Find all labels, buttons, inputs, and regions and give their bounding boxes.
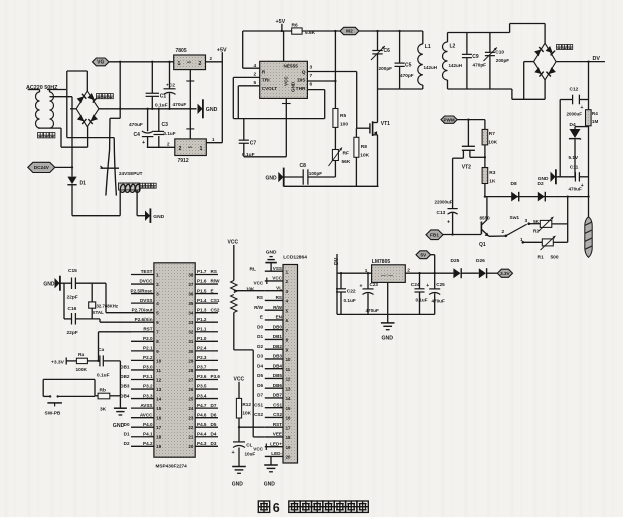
capacitor C9 470pF	[466, 33, 468, 55]
svg-text:P3.4: P3.4	[197, 393, 207, 398]
svg-text:P1.0: P1.0	[197, 336, 207, 341]
svg-text:1: 1	[178, 61, 181, 67]
svg-text:11: 11	[156, 368, 161, 373]
wire AC cross rail	[67, 137, 114, 139]
lcd pin 11 DB4	[265, 368, 283, 370]
svg-text:GND: GND	[113, 423, 125, 429]
svg-text:C15: C15	[68, 268, 77, 274]
svg-text:7: 7	[310, 73, 313, 79]
lcd pin 17 RST	[265, 426, 283, 428]
svg-text:14: 14	[286, 396, 291, 401]
wire R12 to lcd RST	[239, 426, 265, 428]
wire tank2 top rail	[448, 32, 510, 34]
svg-text:CS2: CS2	[211, 307, 220, 312]
svg-text:8550: 8550	[480, 215, 491, 220]
svg-text:7912: 7912	[178, 158, 189, 164]
regulator 7805	[174, 55, 206, 70]
ground GND near bus	[198, 104, 203, 114]
lcd pin 4 RS	[265, 299, 283, 301]
transformer T1 primary winding	[36, 92, 40, 128]
svg-text:27: 27	[188, 377, 193, 382]
bridge rectifier 1 label 整流桥	[97, 94, 102, 99]
ground GND LM7805	[381, 322, 395, 324]
svg-text:CS2: CS2	[273, 412, 282, 417]
pin 2 DVCC	[131, 283, 154, 285]
svg-text:P1.3: P1.3	[197, 307, 207, 312]
node 5V tag	[416, 251, 431, 259]
svg-text:MSP430F2274: MSP430F2274	[156, 464, 188, 469]
pin 34 P1.3 CS2	[195, 312, 218, 314]
relay contact arm 1	[106, 118, 110, 195]
pin 30 P2.4	[195, 350, 218, 352]
svg-text:DB3: DB3	[273, 354, 283, 359]
node DC24V tag	[28, 162, 55, 172]
svg-text:CS2: CS2	[254, 412, 263, 417]
wire main positive bus	[99, 108, 197, 110]
svg-text:7805: 7805	[176, 48, 187, 54]
node FB1 tag	[426, 230, 443, 240]
svg-text:+: +	[360, 283, 363, 289]
svg-text:TRI: TRI	[262, 77, 270, 83]
pin 12 P3.1	[131, 378, 154, 380]
svg-text:56K: 56K	[342, 159, 351, 165]
lcd pin 15 CS1	[265, 407, 283, 409]
svg-text:∽: ∽	[187, 60, 192, 66]
svg-text:D1: D1	[124, 431, 130, 436]
svg-text:100K: 100K	[76, 367, 88, 373]
relay label 继电器	[140, 183, 145, 188]
ground GND C1	[232, 466, 246, 468]
svg-text:P1.2: P1.2	[197, 317, 207, 322]
svg-text:C11: C11	[570, 165, 579, 171]
push button SW-PB	[42, 379, 44, 396]
svg-text:10: 10	[286, 357, 291, 362]
svg-text:2000uF: 2000uF	[567, 112, 583, 117]
svg-text:500: 500	[551, 255, 559, 261]
svg-text:VCC: VCC	[254, 281, 264, 286]
svg-text:470uF: 470uF	[173, 102, 187, 108]
pin 20 P4.3 D3	[195, 445, 218, 447]
svg-text:GND: GND	[291, 81, 296, 92]
lcd pin 19 LED+	[265, 446, 283, 448]
svg-text:D8: D8	[511, 181, 517, 187]
pin 19 P4.2	[131, 445, 154, 447]
wire crystal top line	[60, 282, 71, 284]
wire reset riser	[98, 332, 100, 361]
wire Xout to pin5	[105, 283, 107, 313]
wire pots to rail	[567, 197, 569, 243]
svg-text:R4: R4	[592, 111, 598, 116]
wire C12 left branch	[559, 100, 561, 177]
wire secondary top to bridge top	[66, 71, 68, 138]
svg-text:C24: C24	[411, 282, 420, 288]
bridge rectifier 1	[76, 91, 99, 127]
svg-text:14: 14	[156, 396, 161, 401]
wire VG riser to bus	[119, 62, 121, 119]
svg-text:DB6: DB6	[273, 383, 283, 388]
svg-text:25: 25	[188, 396, 193, 401]
svg-text:GND: GND	[538, 176, 549, 182]
svg-text:PWM: PWM	[443, 117, 454, 122]
svg-text:D2: D2	[124, 441, 130, 446]
svg-text:DB2: DB2	[120, 374, 130, 379]
wire Xin to pin6	[99, 319, 101, 322]
lcd pin 12 DB5	[265, 377, 283, 379]
wire tank1 bottom	[378, 88, 423, 90]
pin 9 P2.1	[131, 350, 154, 352]
svg-text:VCC: VCC	[284, 76, 289, 86]
svg-text:10K: 10K	[360, 153, 369, 159]
wire relay throw riser	[50, 96, 73, 98]
svg-text:DIS: DIS	[298, 77, 307, 83]
pin 29 P2.3	[195, 359, 218, 361]
wire VG rail to 7805	[109, 61, 174, 63]
svg-text:Sw1: Sw1	[510, 215, 520, 221]
svg-text:C8: C8	[300, 163, 307, 169]
pin 32 P1.1	[195, 331, 218, 333]
svg-text:R/W: R/W	[254, 305, 264, 310]
pin 14 P3.3	[131, 398, 154, 400]
svg-text:R: R	[262, 69, 266, 75]
svg-text:18: 18	[156, 435, 161, 440]
wire threshold tie line	[233, 118, 324, 120]
potentiometer R2 5K	[540, 220, 552, 227]
svg-text:21: 21	[188, 435, 193, 440]
wire source bus	[284, 185, 379, 187]
svg-text:R6: R6	[292, 23, 298, 29]
svg-text:DVCC: DVCC	[139, 279, 153, 284]
wire pin5 CVOLT	[238, 85, 259, 87]
svg-text:0.1uF: 0.1uF	[164, 131, 176, 136]
svg-text:C12: C12	[570, 87, 579, 93]
svg-text:18: 18	[286, 435, 291, 440]
svg-text:LM7805: LM7805	[372, 259, 391, 265]
svg-text:E: E	[260, 315, 263, 320]
svg-text:3: 3	[525, 218, 528, 224]
capacitor C15 22pF	[71, 278, 73, 290]
svg-text:D1: D1	[257, 334, 263, 339]
lcd pin 8 DB1	[265, 338, 283, 340]
capacitor C22 0.1uF	[340, 273, 342, 288]
svg-text:VT2: VT2	[462, 165, 471, 171]
svg-text:R1: R1	[538, 255, 544, 261]
regulator 7912	[175, 139, 207, 156]
display U4 LCD12864	[283, 265, 298, 464]
lcd pin 5 R/W	[265, 309, 283, 311]
svg-text:P4.6: P4.6	[197, 412, 207, 417]
svg-text:P4.2: P4.2	[143, 441, 153, 446]
svg-text:P2.0: P2.0	[143, 336, 153, 341]
svg-text:CVOLT: CVOLT	[262, 86, 277, 91]
svg-text:C25: C25	[436, 282, 445, 287]
svg-text:P3.2: P3.2	[143, 384, 153, 389]
pin 33 P1.2	[195, 321, 218, 323]
svg-text:DB1: DB1	[120, 365, 130, 370]
svg-text:5.6K: 5.6K	[305, 30, 316, 36]
svg-text:CL: CL	[246, 442, 252, 447]
svg-text:C6: C6	[384, 48, 391, 54]
svg-text:100pF: 100pF	[309, 171, 322, 176]
lcd pin 1 VSS	[265, 270, 283, 272]
resistor R8 10K	[355, 128, 357, 137]
svg-text:D3: D3	[211, 441, 217, 446]
wire relay common rail	[101, 167, 120, 169]
lcd pin 3 VL	[265, 290, 283, 292]
ground GND C11	[551, 172, 556, 182]
svg-text:SW-PB: SW-PB	[45, 411, 61, 417]
svg-text:P1.1: P1.1	[197, 326, 207, 331]
svg-text:23: 23	[188, 416, 193, 421]
svg-text:R8: R8	[361, 144, 367, 150]
svg-text:37: 37	[188, 282, 193, 287]
node VG tag	[93, 58, 110, 66]
svg-text:P2.6/Xin: P2.6/Xin	[135, 317, 153, 322]
resistor R6 5.6K	[292, 28, 302, 34]
svg-text:AVSS: AVSS	[140, 403, 152, 408]
svg-text:22000uF: 22000uF	[435, 200, 453, 205]
wire RL tap to VL	[234, 290, 265, 292]
svg-text:RL: RL	[250, 266, 256, 272]
pin 16 AVCC	[131, 417, 154, 419]
svg-text:28: 28	[188, 368, 193, 373]
svg-text:+5V: +5V	[276, 19, 286, 25]
svg-text:C5: C5	[405, 63, 412, 69]
svg-text:∽: ∽	[188, 145, 193, 151]
svg-text:P1.5: P1.5	[197, 288, 207, 293]
regulator LM7805 U2	[372, 265, 406, 283]
svg-text:0.1uF: 0.1uF	[97, 373, 110, 379]
capacitor C4 470uF	[147, 109, 149, 132]
pin 27 P3.6 P3.6	[195, 378, 218, 380]
svg-text:P2.5/Rosc: P2.5/Rosc	[131, 288, 153, 293]
wire +5V rail right side	[221, 52, 223, 143]
transformer label 变压器	[38, 133, 43, 138]
switch Sw1	[505, 235, 508, 238]
node M2 tag	[340, 27, 359, 34]
svg-text:P1.6: P1.6	[197, 279, 207, 284]
capacitor C3 0.1uF	[158, 109, 160, 131]
svg-text:L1: L1	[425, 44, 431, 50]
pin 3 P2.5/Rosc	[131, 293, 154, 295]
svg-text:P2.4: P2.4	[197, 346, 207, 351]
svg-text:17: 17	[286, 425, 291, 430]
svg-text:+: +	[581, 105, 584, 111]
svg-text:Ca: Ca	[98, 347, 104, 353]
wire output node	[405, 272, 453, 274]
wire LED- to gnd	[270, 456, 272, 464]
bridge rectifier 2	[534, 43, 557, 80]
svg-text:19: 19	[156, 444, 161, 449]
node 3.3V tag	[497, 269, 512, 277]
svg-text:DB0: DB0	[273, 324, 283, 329]
wire 555 vcc pin stub	[283, 31, 285, 61]
svg-text:C1: C1	[160, 94, 167, 100]
svg-text:470uF: 470uF	[569, 187, 582, 192]
svg-text:15: 15	[156, 406, 161, 411]
svg-text:C22: C22	[347, 289, 356, 295]
svg-text:P4.4: P4.4	[197, 431, 207, 436]
pin 10 P2.2	[131, 359, 154, 361]
pin 38 P1.7 RS	[195, 274, 218, 276]
pin 18 P4.1	[131, 436, 154, 438]
svg-text:11: 11	[286, 367, 291, 372]
pin 6 P2.6/Xin	[131, 321, 154, 323]
svg-text:D1: D1	[80, 181, 87, 187]
capacitor C7 0.1uF	[243, 119, 245, 140]
svg-text:13: 13	[156, 387, 161, 392]
pin 36 P1.5 E	[195, 293, 218, 295]
svg-text:13: 13	[286, 386, 291, 391]
pin 37 P1.6 R/W	[195, 283, 218, 285]
resistor R4	[586, 110, 592, 126]
svg-text:VCC: VCC	[253, 447, 263, 452]
svg-text:R3: R3	[489, 170, 495, 176]
svg-text:VCC: VCC	[234, 376, 245, 382]
crystal XTAL 32.768KHz	[91, 283, 93, 302]
variable capacitor C10 200pF	[489, 33, 491, 53]
svg-text:DB4: DB4	[120, 393, 130, 398]
svg-text:200pF: 200pF	[496, 58, 509, 63]
lcd pin 7 DB0	[265, 329, 283, 331]
capacitor C1 10uF lcd	[233, 441, 245, 443]
pin 17 P4.0	[131, 426, 154, 428]
svg-text:12: 12	[286, 377, 291, 382]
svg-text:THR: THR	[296, 86, 306, 92]
svg-text:D5: D5	[257, 373, 263, 378]
wire riser jog to relay contact	[110, 117, 120, 119]
svg-text:16: 16	[286, 416, 291, 421]
svg-text:Q1: Q1	[479, 242, 486, 248]
wire DC24V to diode D1	[55, 166, 72, 168]
wire C7 to gnd bus	[244, 156, 286, 158]
wire bridge left lead	[70, 108, 76, 110]
potentiometer R1 500	[542, 239, 553, 246]
svg-text:12: 12	[156, 377, 161, 382]
svg-text:3K: 3K	[100, 407, 107, 413]
wire rail to pin4	[242, 31, 244, 68]
wire 7805 input	[337, 272, 372, 274]
svg-text:P3.6: P3.6	[211, 374, 221, 379]
svg-text:33: 33	[188, 320, 193, 325]
lcd pin 14 DB7	[265, 397, 283, 399]
timer NE555 U1	[260, 61, 308, 98]
svg-text:5V: 5V	[420, 252, 427, 258]
svg-text:C3: C3	[162, 122, 169, 128]
svg-text:P2.3: P2.3	[197, 355, 207, 360]
svg-text:26: 26	[188, 387, 193, 392]
transformer T1 secondary winding	[50, 92, 54, 128]
svg-text:L2: L2	[450, 44, 456, 50]
svg-text:0.1uF: 0.1uF	[416, 298, 428, 303]
svg-text:C16: C16	[68, 306, 77, 312]
svg-text:Q: Q	[302, 69, 306, 75]
svg-text:D4: D4	[257, 363, 263, 368]
svg-text:GND: GND	[206, 107, 218, 113]
wire FB1 base line	[443, 234, 481, 236]
svg-text:470uF: 470uF	[432, 299, 445, 304]
svg-text:17: 17	[156, 425, 161, 430]
svg-text:P3.3: P3.3	[143, 393, 153, 398]
pin 4 DVSS	[131, 302, 154, 304]
wire 555 gnd pin stub	[285, 98, 287, 156]
svg-text:P3.6: P3.6	[197, 374, 207, 379]
svg-text:M2: M2	[346, 29, 353, 35]
capacitor Ca 0.1uF	[99, 355, 101, 366]
svg-text:P4.0: P4.0	[143, 422, 153, 427]
svg-text:32.768KHz: 32.768KHz	[97, 304, 119, 309]
svg-text:142uH: 142uH	[449, 63, 463, 68]
svg-text:38: 38	[188, 272, 193, 277]
pin 23 P4.6 D6	[195, 417, 218, 419]
svg-text:35: 35	[188, 301, 193, 306]
svg-text:5K: 5K	[533, 219, 540, 224]
svg-text:+3.3V: +3.3V	[51, 359, 65, 365]
lcd pin 16 CS2	[265, 416, 283, 418]
svg-text:D6: D6	[257, 383, 263, 388]
svg-text:DB1: DB1	[273, 334, 283, 339]
svg-text:DB4: DB4	[273, 363, 283, 368]
svg-text:DC24V: DC24V	[34, 165, 50, 170]
lcd pin 6 EN	[265, 319, 283, 321]
svg-text:D0: D0	[124, 422, 130, 427]
svg-text:GND: GND	[266, 249, 277, 255]
svg-text:CS1: CS1	[273, 402, 282, 407]
svg-text:CS1: CS1	[211, 298, 220, 303]
wire 7805 ground leg	[387, 282, 389, 322]
svg-text:VCC: VCC	[272, 276, 282, 281]
pin 13 P3.2	[131, 388, 154, 390]
lcd pin 9 DB2	[265, 348, 283, 350]
svg-text:31: 31	[188, 339, 193, 344]
capacitor C13 22000uF	[452, 158, 454, 208]
svg-text:D7: D7	[257, 393, 263, 398]
svg-text:GND: GND	[266, 175, 278, 181]
wire gnd tie vertical	[63, 283, 65, 319]
svg-text:Ra: Ra	[78, 352, 84, 358]
wire rail drop to R5	[334, 31, 336, 109]
svg-text:RS: RS	[257, 295, 263, 300]
relay coil 24VSEPUT	[119, 183, 140, 190]
capacitor C24 0.1uF	[419, 273, 421, 288]
svg-text:CS1: CS1	[254, 402, 263, 407]
svg-text:D3: D3	[257, 354, 263, 359]
svg-text:R7: R7	[489, 131, 495, 137]
svg-text:P2.1: P2.1	[143, 346, 153, 351]
svg-text:GND: GND	[264, 481, 276, 487]
svg-text:200pF: 200pF	[379, 66, 393, 71]
pin 26 P3.5	[195, 388, 218, 390]
transistor VT2 MOSFET	[467, 120, 469, 147]
svg-text:2: 2	[179, 146, 182, 152]
svg-text:P4.7: P4.7	[197, 403, 207, 408]
wire DV rail down	[588, 62, 590, 110]
lcd pin 10 DB3	[265, 358, 283, 360]
wire Ca to gnd	[119, 361, 121, 408]
svg-text:D2: D2	[538, 181, 544, 187]
svg-text:RST: RST	[143, 326, 152, 331]
svg-text:D6: D6	[211, 412, 217, 417]
wire RL bottom to VEE	[233, 313, 235, 350]
svg-text:3: 3	[310, 65, 313, 71]
svg-text:10K: 10K	[488, 140, 497, 146]
svg-text:22: 22	[188, 425, 193, 430]
svg-text:10: 10	[156, 358, 161, 363]
svg-text:P3.7: P3.7	[197, 365, 207, 370]
svg-text:VL: VL	[276, 285, 282, 290]
svg-text:24: 24	[188, 406, 193, 411]
svg-text:P1.7: P1.7	[197, 269, 207, 274]
svg-text:30: 30	[188, 349, 193, 354]
